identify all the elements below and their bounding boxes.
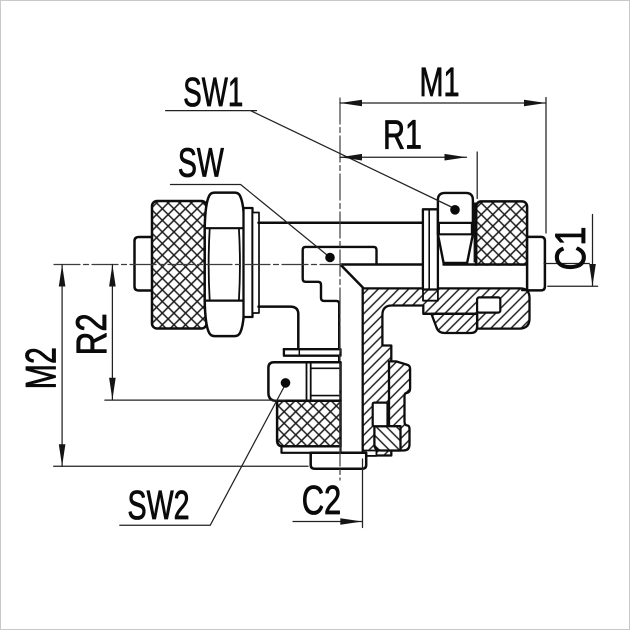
chamfer corner	[341, 265, 363, 287]
R1 dim line	[340, 156, 467, 158]
SW2 leader dot	[281, 378, 291, 388]
band under flange + branch wall (combined)	[363, 288, 530, 455]
wall bottom ledge	[363, 451, 377, 456]
washer bottom neck tick	[298, 349, 300, 356]
C1 down arrow	[589, 264, 596, 286]
svg-text:SW: SW	[178, 140, 225, 186]
vertical branch centerline	[339, 98, 341, 480]
washer bottom	[284, 349, 341, 356]
svg-text:M1: M1	[420, 59, 460, 105]
R2 top arrow	[109, 265, 116, 287]
R2 dim line	[111, 265, 113, 400]
svg-text:R1: R1	[383, 112, 422, 158]
M2 dim line	[61, 265, 63, 467]
top nut SW1 band lines	[438, 223, 473, 234]
svg-text:SW2: SW2	[128, 482, 190, 528]
M1 dim line	[340, 102, 546, 104]
C1 centerline ext	[544, 263, 589, 265]
horizontal centerline	[54, 264, 342, 266]
C1 ref line	[548, 285, 598, 287]
body top edge	[259, 221, 423, 224]
hex nut bottom outline	[268, 362, 340, 401]
knurl section inner piece (reverse hatch)	[374, 426, 400, 450]
SW boss outline	[303, 247, 377, 453]
M1 left arrow	[340, 100, 362, 107]
nut section tab under band	[431, 314, 477, 333]
tube stub bottom	[311, 453, 367, 469]
C2 ext line	[362, 459, 364, 528]
small ledge line under stub right	[522, 289, 543, 291]
hex nut left	[205, 193, 245, 337]
SW1 leader	[166, 111, 453, 208]
M2 top arrow	[59, 265, 66, 287]
SW leader dot	[325, 253, 335, 263]
white notch right	[477, 297, 500, 312]
top nut SW1 side arcs	[439, 224, 472, 233]
R2 bottom arrow	[109, 378, 116, 400]
C2 dim line	[293, 521, 362, 523]
flange bottom edge	[363, 288, 544, 291]
SW1 leader dot	[450, 205, 460, 215]
M1 right arrow	[524, 100, 546, 107]
svg-text:C1: C1	[547, 227, 595, 271]
R1 right arrow	[445, 154, 467, 161]
arrows	[59, 100, 596, 525]
hex nut left chamfer arcs	[209, 228, 240, 300]
hex nut bottom chamfer arcs	[311, 368, 341, 395]
knurled nut right	[476, 201, 527, 287]
nut + knurl section column (branch, right side)	[389, 361, 410, 450]
R1 ext right	[476, 152, 478, 199]
gap strip between nut and knurl	[474, 203, 479, 263]
M2 ref bottom	[54, 465, 308, 467]
washer left inner ring	[253, 213, 260, 314]
svg-text:R2: R2	[68, 313, 116, 355]
svg-text:M2: M2	[18, 347, 66, 389]
R1 left arrow	[340, 154, 362, 161]
top nut SW1 outline	[438, 193, 473, 263]
washer right inner edge	[428, 209, 430, 289]
SW leader	[171, 185, 329, 256]
step ring bottom	[282, 446, 341, 452]
tube stub right	[527, 237, 545, 291]
C1 dim line	[592, 215, 594, 287]
svg-text:SW1: SW1	[183, 69, 243, 115]
hex nut left flat lines	[205, 228, 245, 300]
svg-text:C2: C2	[302, 477, 342, 523]
flange top edge	[342, 263, 545, 266]
tube stub left	[135, 237, 154, 291]
SW2 leader	[120, 387, 284, 525]
hex nut bottom flat lines	[307, 362, 311, 401]
body bottom edge + branch neck	[259, 307, 299, 350]
washer right	[423, 209, 438, 289]
washer left outer ring	[244, 208, 253, 317]
washer section edges below flange	[423, 290, 438, 301]
white window in wall	[373, 403, 388, 427]
M1 ext right	[545, 98, 547, 234]
R2 ref bottom	[105, 399, 285, 401]
knurled nut left	[152, 201, 207, 329]
knurled nut bottom	[277, 401, 340, 447]
flange band white	[342, 266, 545, 289]
M2 bottom arrow	[59, 444, 66, 466]
C2 right arrow	[340, 518, 362, 525]
